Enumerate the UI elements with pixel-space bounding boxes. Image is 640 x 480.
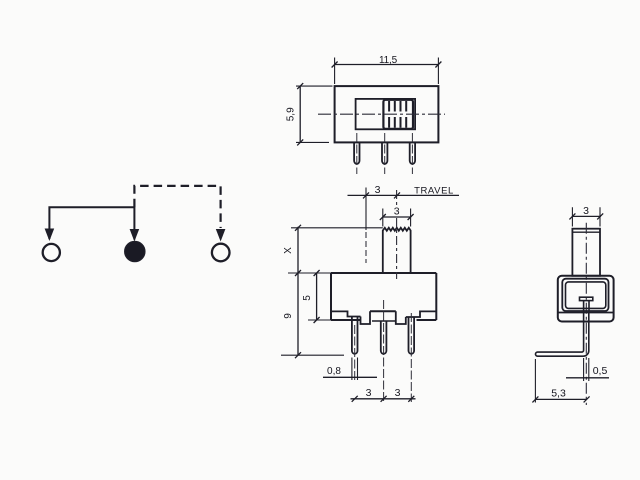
top view: body outline: [335, 86, 439, 142]
side view: inner frame outer line: [562, 279, 608, 311]
top view: pin 3 centerline: [411, 133, 413, 174]
dimension 5: extension line bottom: [308, 319, 331, 321]
front view: bottom edge right segment: [417, 319, 437, 321]
side view: inner frame inner line: [566, 282, 606, 309]
side view: terminal T-bar: [580, 297, 593, 300]
side view: knob cap line: [572, 231, 600, 233]
dimension 5.9: extension lines: [296, 86, 333, 142]
travel dimension: dimension line: [348, 194, 460, 196]
side view: terminal stem: [584, 301, 589, 311]
svg-text:5,3: 5,3: [551, 388, 566, 400]
top view: horizontal centerline: [318, 113, 445, 115]
svg-text:3: 3: [583, 205, 589, 217]
position diagram: solid throw link: [49, 207, 134, 239]
dimension 5: oblique ticks: [314, 270, 320, 323]
svg-text:X: X: [283, 247, 294, 254]
svg-text:5: 5: [302, 295, 313, 301]
pin pitch dimension: dimension line: [351, 398, 416, 400]
knob width dimension: extension lines: [383, 209, 411, 227]
front view: knob centerline: [396, 190, 398, 279]
svg-text:3: 3: [395, 387, 401, 399]
position diagram: arrowhead right: [216, 229, 226, 242]
dimension 0.8: leader line: [323, 376, 377, 378]
svg-text:5,9: 5,9: [286, 107, 297, 121]
dimension X/9: extension line knob top: [291, 227, 383, 229]
front view: body right edge: [435, 273, 437, 320]
svg-text:9: 9: [283, 313, 294, 319]
front view: center platform bottom: [372, 320, 396, 322]
top view: slider window: [356, 99, 416, 129]
travel phantom line: [365, 188, 367, 231]
pin pitch dimension: oblique ticks: [352, 396, 415, 402]
side view: body outer shell: [558, 276, 614, 322]
side view: knob: [572, 229, 600, 276]
dimension 11.5: extension lines: [335, 58, 439, 85]
svg-text:0,8: 0,8: [327, 366, 341, 377]
top view: pin 2 centerline: [384, 133, 386, 174]
side view: knob width dimension line: [572, 215, 601, 217]
side view: knob width dimension extension lines: [572, 207, 600, 226]
svg-text:0,5: 0,5: [593, 365, 608, 377]
dimension 11.5: dimension line: [335, 64, 439, 66]
dimension 5.3: dimension line: [535, 398, 586, 400]
position diagram: arrowhead left: [45, 229, 55, 242]
svg-text:3: 3: [375, 184, 381, 196]
dimension X/9: extension line pin tip level: [281, 354, 344, 356]
dimension 5.9: dimension line: [299, 86, 301, 142]
svg-text:3: 3: [366, 387, 372, 399]
dimension 5.3: left extension line: [534, 359, 536, 403]
svg-text:3: 3: [394, 206, 400, 218]
front view: body left edge: [330, 273, 332, 320]
top view: pin 1 centerline: [356, 133, 358, 174]
position diagram: dashed throw link: [134, 186, 220, 228]
position diagram: terminal circle right (open): [212, 244, 230, 262]
front view: tab 1: [361, 311, 371, 324]
front view: bottom edge left segment: [331, 319, 361, 321]
front view: pin 3 centerline: [410, 313, 412, 402]
dimension X/9: oblique ticks: [295, 225, 301, 358]
front view: body top edge: [331, 272, 436, 274]
dimension 5.3: oblique ticks: [532, 396, 589, 402]
top view: slider knob (ribbed): [383, 100, 413, 129]
side view: knob width oblique ticks: [569, 213, 603, 219]
dimension 11.5: oblique ticks: [332, 62, 442, 68]
side view: bent lead: [535, 311, 588, 356]
position diagram: arrowhead middle: [130, 229, 140, 242]
position diagram: terminal circle left (open): [43, 244, 60, 261]
knob width dimension: dimension line: [383, 216, 411, 218]
dimension 0.5: extension lines: [584, 358, 589, 381]
front view: center platform top: [370, 310, 396, 312]
dimension X/9: dimension line: [297, 227, 299, 355]
dimension 0.8: pin edge extension lines: [352, 358, 358, 381]
front view: tab 2: [396, 311, 406, 324]
dimension 0.5: leader line: [566, 377, 609, 379]
side view: vertical centerline: [585, 223, 587, 405]
svg-text:11,5: 11,5: [379, 55, 398, 66]
top view: pin 2: [382, 142, 387, 164]
front view: pin 1 centerline: [354, 325, 356, 380]
front view: knob with serrated top: [383, 228, 411, 273]
top view: pin 3: [410, 142, 415, 164]
dimension X/9: extension line body top: [288, 272, 331, 274]
svg-text:TRAVEL: TRAVEL: [414, 186, 454, 197]
front view: pin 2 centerline: [383, 300, 385, 402]
front view: left ledge: [331, 311, 361, 316]
front view: pin 1: [352, 317, 358, 354]
travel dimension: oblique ticks: [363, 192, 400, 198]
front view: pin 2: [381, 321, 387, 354]
dimension 5.9: oblique ticks: [297, 83, 303, 145]
dimension 5: dimension line: [316, 273, 318, 320]
knob width dimension: oblique ticks: [380, 214, 414, 220]
side view: body seam line: [558, 312, 614, 314]
position diagram: terminal circle middle (filled): [125, 242, 145, 262]
front view: pin 3: [409, 317, 415, 354]
front view: right ledge: [406, 311, 437, 317]
top view: pin 1: [354, 142, 359, 164]
